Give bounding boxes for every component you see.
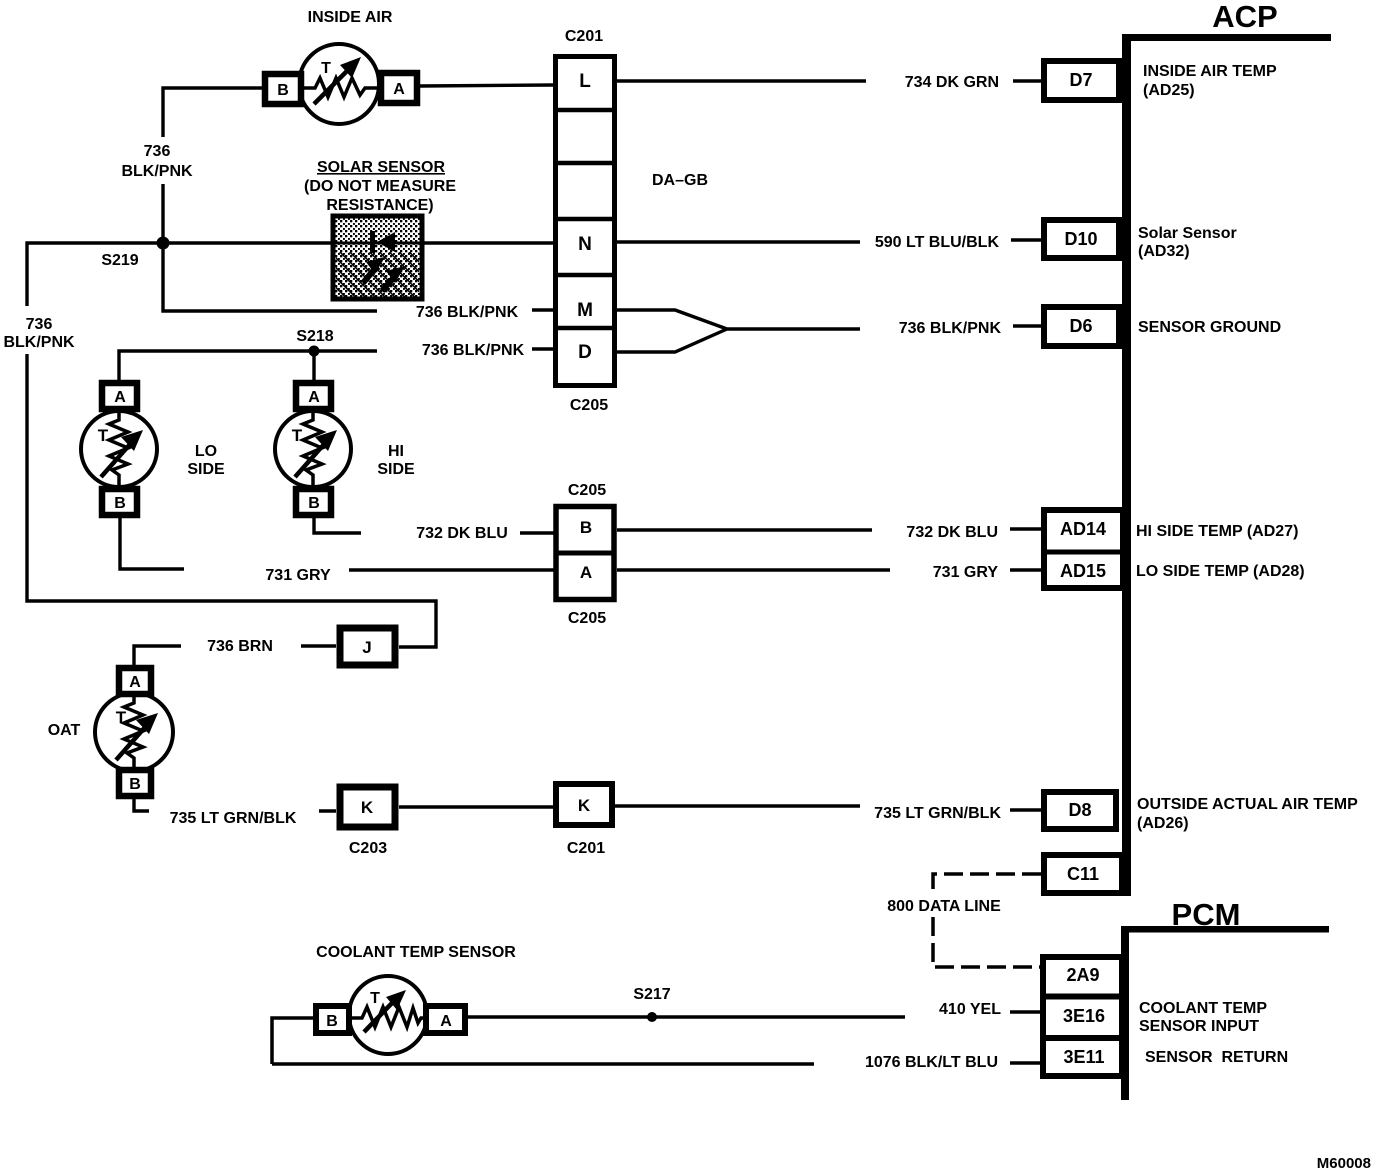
- wire coolant A 410 YEL: [468, 1012, 1040, 1017]
- svg-text:A: A: [393, 81, 405, 98]
- wire 736 BLK/PNK inside-air B to S219: [163, 88, 262, 243]
- svg-text:1076 BLK/LT BLU: 1076 BLK/LT BLU: [865, 1054, 998, 1071]
- svg-text:K: K: [361, 798, 374, 817]
- svg-text:C201: C201: [567, 840, 605, 857]
- svg-text:C201: C201: [565, 28, 603, 45]
- wire C205 B to AD14: [617, 529, 1041, 530]
- svg-text:S218: S218: [296, 328, 333, 345]
- wire OAT B 735 LT GRN/BLK: [134, 799, 336, 811]
- PCM bracket: [1121, 897, 1329, 1100]
- node S218: [309, 346, 320, 357]
- wire S219 down to M: [163, 243, 553, 311]
- svg-text:HI SIDE TEMP (AD27): HI SIDE TEMP (AD27): [1136, 523, 1298, 540]
- svg-text:SIDE: SIDE: [377, 461, 415, 478]
- svg-text:3E16: 3E16: [1063, 1006, 1105, 1026]
- svg-text:LO: LO: [195, 443, 217, 460]
- terminal B coolant: [316, 1006, 349, 1033]
- thermistor HI side: [275, 411, 351, 487]
- svg-text:A: A: [580, 563, 592, 582]
- terminal B LO: [102, 489, 137, 515]
- wire C205 A to AD15: [617, 568, 1041, 571]
- wire inside-air A to C201 L: [420, 85, 553, 86]
- svg-text:735 LT GRN/BLK: 735 LT GRN/BLK: [874, 805, 1001, 822]
- svg-text:BLK/PNK: BLK/PNK: [3, 334, 75, 351]
- svg-text:T: T: [98, 426, 109, 445]
- wire N to D10: [617, 240, 1041, 242]
- svg-text:AD14: AD14: [1060, 519, 1106, 539]
- wire K C201 to D8: [615, 806, 1041, 810]
- wire coolant B 1076 BLK/LT BLU: [272, 1018, 1040, 1064]
- solar sensor: [304, 159, 456, 299]
- svg-text:736 BLK/PNK: 736 BLK/PNK: [899, 320, 1002, 337]
- cavity C11: [1044, 855, 1122, 893]
- svg-text:SENSOR GROUND: SENSOR GROUND: [1138, 319, 1281, 336]
- svg-text:PCM: PCM: [1172, 897, 1241, 932]
- svg-text:C203: C203: [349, 840, 387, 857]
- svg-text:B: B: [277, 82, 289, 99]
- svg-text:COOLANT TEMP: COOLANT TEMP: [1139, 1000, 1267, 1017]
- svg-text:LO SIDE TEMP (AD28): LO SIDE TEMP (AD28): [1136, 563, 1305, 580]
- svg-text:D8: D8: [1068, 800, 1091, 820]
- svg-text:SENSOR RETURN: SENSOR RETURN: [1145, 1049, 1288, 1066]
- svg-text:800 DATA LINE: 800 DATA LINE: [887, 898, 1001, 915]
- svg-text:B: B: [114, 495, 126, 512]
- connector K C203: [340, 787, 395, 857]
- svg-text:T: T: [321, 60, 331, 77]
- terminal A LO: [102, 383, 137, 409]
- svg-text:736: 736: [26, 316, 53, 333]
- svg-text:3E11: 3E11: [1063, 1047, 1104, 1067]
- svg-text:736 BRN: 736 BRN: [207, 638, 273, 655]
- connector K C201: [556, 784, 612, 857]
- svg-text:D7: D7: [1069, 70, 1092, 90]
- svg-text:736 BLK/PNK: 736 BLK/PNK: [416, 304, 519, 321]
- svg-text:N: N: [578, 234, 592, 255]
- terminal A HI: [296, 383, 331, 409]
- thermistor inside air: [299, 44, 379, 124]
- svg-text:736: 736: [144, 143, 171, 160]
- wire dashed 800 data line: [933, 874, 1041, 967]
- svg-text:AD15: AD15: [1060, 561, 1106, 581]
- svg-text:T: T: [370, 990, 380, 1007]
- svg-text:A: A: [114, 389, 126, 406]
- terminal B HI: [296, 489, 331, 515]
- wire: [27, 81, 1041, 1064]
- svg-text:(AD25): (AD25): [1143, 82, 1195, 99]
- wire S218 row: [119, 349, 553, 380]
- wire 590 bus left end to C201 N: [27, 243, 553, 647]
- svg-text:S217: S217: [633, 986, 670, 1003]
- svg-text:K: K: [578, 796, 591, 815]
- svg-text:B: B: [308, 495, 320, 512]
- connector J: [340, 628, 395, 665]
- svg-text:C205: C205: [570, 397, 608, 414]
- thermistor LO side: [81, 411, 157, 487]
- svg-text:SOLAR SENSOR: SOLAR SENSOR: [317, 159, 445, 176]
- svg-text:590 LT BLU/BLK: 590 LT BLU/BLK: [875, 234, 1000, 251]
- svg-text:731 GRY: 731 GRY: [265, 567, 331, 584]
- svg-text:COOLANT TEMP SENSOR: COOLANT TEMP SENSOR: [316, 944, 516, 961]
- svg-text:(AD32): (AD32): [1138, 243, 1190, 260]
- svg-text:SIDE: SIDE: [187, 461, 225, 478]
- svg-text:S219: S219: [101, 252, 138, 269]
- cavity D10: [1044, 220, 1119, 258]
- svg-text:732 DK BLU: 732 DK BLU: [416, 525, 508, 542]
- svg-text:L: L: [579, 71, 591, 92]
- connector C201 column: [555, 28, 615, 414]
- svg-text:B: B: [129, 776, 141, 793]
- wire HI B 732 DK BLU: [314, 518, 555, 533]
- svg-text:D10: D10: [1064, 229, 1097, 249]
- svg-text:B: B: [580, 518, 592, 537]
- cavity D7: [1044, 61, 1119, 100]
- svg-text:D6: D6: [1069, 316, 1092, 336]
- node S219: [157, 237, 170, 250]
- wire K C203 to K C201: [399, 805, 553, 808]
- svg-text:DA–GB: DA–GB: [652, 172, 708, 189]
- svg-text:731 GRY: 731 GRY: [933, 564, 999, 581]
- svg-text:RESISTANCE): RESISTANCE): [326, 197, 433, 214]
- cavity D6: [1044, 307, 1119, 346]
- ACP bracket: [1122, 0, 1331, 896]
- svg-text:Solar Sensor: Solar Sensor: [1138, 225, 1237, 242]
- svg-text:D: D: [578, 342, 592, 363]
- svg-text:T: T: [116, 708, 127, 727]
- wire M D merge to D6: [617, 310, 1041, 352]
- thermistor OAT: [95, 693, 173, 771]
- terminal B OAT: [119, 770, 151, 796]
- terminal A inside air: [381, 73, 417, 103]
- svg-text:(DO NOT MEASURE: (DO NOT MEASURE: [304, 178, 456, 195]
- svg-text:A: A: [440, 1013, 452, 1030]
- svg-text:A: A: [308, 389, 320, 406]
- svg-text:INSIDE AIR: INSIDE AIR: [308, 9, 393, 26]
- svg-text:A: A: [129, 674, 141, 691]
- svg-text:C205: C205: [568, 610, 606, 627]
- svg-text:M: M: [577, 300, 593, 321]
- svg-text:736 BLK/PNK: 736 BLK/PNK: [422, 342, 525, 359]
- wire L to D7: [617, 79, 1041, 82]
- terminal A OAT: [119, 668, 151, 694]
- wire 736 BRN OAT A to J: [134, 646, 336, 665]
- svg-text:C11: C11: [1067, 864, 1099, 884]
- svg-text:410 YEL: 410 YEL: [939, 1001, 1001, 1018]
- svg-text:(AD26): (AD26): [1137, 815, 1189, 832]
- svg-text:INSIDE AIR TEMP: INSIDE AIR TEMP: [1143, 63, 1277, 80]
- svg-text:735 LT GRN/BLK: 735 LT GRN/BLK: [170, 810, 297, 827]
- svg-text:732 DK BLU: 732 DK BLU: [906, 524, 998, 541]
- svg-text:C205: C205: [568, 482, 606, 499]
- svg-text:B: B: [326, 1013, 338, 1030]
- svg-text:M60008: M60008: [1317, 1155, 1371, 1172]
- svg-text:OAT: OAT: [48, 722, 81, 739]
- svg-text:734 DK GRN: 734 DK GRN: [905, 74, 999, 91]
- svg-text:J: J: [362, 638, 371, 657]
- svg-text:BLK/PNK: BLK/PNK: [121, 163, 193, 180]
- svg-text:2A9: 2A9: [1066, 965, 1099, 985]
- node S217: [647, 1012, 657, 1022]
- terminal B inside air: [265, 74, 301, 104]
- cavity D8: [1044, 792, 1116, 829]
- svg-text:SENSOR INPUT: SENSOR INPUT: [1139, 1018, 1259, 1035]
- connector C205 pair: [555, 482, 616, 627]
- wire LO B 731 GRY: [120, 518, 555, 570]
- svg-text:OUTSIDE ACTUAL AIR TEMP: OUTSIDE ACTUAL AIR TEMP: [1137, 796, 1358, 813]
- svg-text:HI: HI: [388, 443, 404, 460]
- svg-text:ACP: ACP: [1212, 0, 1277, 34]
- cavity AD14 AD15: [1042, 510, 1124, 588]
- terminal A coolant: [426, 1006, 465, 1033]
- cavity 2A9 3E16 3E11: [1041, 957, 1124, 1076]
- svg-text:T: T: [292, 426, 303, 445]
